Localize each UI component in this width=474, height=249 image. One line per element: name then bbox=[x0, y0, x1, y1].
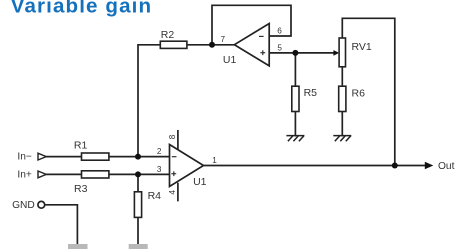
wire GND run bbox=[45, 205, 77, 247]
resistor R6 bbox=[339, 86, 346, 111]
wire feedback loop of U1a bbox=[212, 5, 291, 45]
svg-text:In+: In+ bbox=[17, 169, 31, 180]
pin 8 stub bbox=[177, 131, 179, 150]
wire RV1 to R6 bbox=[341, 67, 343, 86]
wire node C to R5 bbox=[294, 53, 296, 86]
resistor R5 bbox=[292, 86, 299, 111]
ground bar under R4 (cropped) bbox=[129, 244, 148, 249]
pin 4 stub bbox=[177, 184, 179, 201]
input terminal In+ bbox=[38, 171, 46, 178]
op-amp A minus sign bbox=[259, 35, 264, 37]
svg-text:2: 2 bbox=[157, 147, 162, 156]
wire R4 down bbox=[137, 217, 139, 246]
wire RV1 top loop to out node bbox=[342, 18, 395, 165]
svg-text:6: 6 bbox=[277, 26, 282, 35]
resistor R4 bbox=[134, 192, 141, 218]
svg-text:Variable gain: Variable gain bbox=[11, 0, 152, 17]
wire R6 to ground bbox=[341, 112, 343, 136]
wiper arrowhead bbox=[333, 50, 339, 56]
potentiometer RV1 body bbox=[339, 38, 345, 67]
op-amp U1 unit A (pointing left) bbox=[234, 24, 269, 66]
svg-text:Out: Out bbox=[438, 161, 455, 172]
svg-text:R4: R4 bbox=[148, 190, 162, 202]
wire In- to R1 bbox=[46, 156, 81, 158]
op-amp U1 unit B (pointing right) bbox=[170, 145, 204, 187]
junction node Out bbox=[392, 163, 398, 169]
junction node R3/pin3/R4 bbox=[135, 171, 141, 177]
svg-text:In−: In− bbox=[17, 152, 31, 163]
svg-text:3: 3 bbox=[157, 165, 162, 174]
svg-text:R6: R6 bbox=[352, 87, 366, 99]
svg-text:R5: R5 bbox=[304, 87, 318, 99]
resistor R1 bbox=[82, 153, 109, 160]
wire R2 to node B bbox=[187, 44, 235, 46]
wire R5 to ground bbox=[294, 112, 296, 136]
svg-text:7: 7 bbox=[221, 35, 226, 44]
junction node B (R2/pin7/feedback) bbox=[209, 42, 215, 48]
input terminal In- bbox=[38, 153, 46, 160]
svg-text:8: 8 bbox=[168, 134, 177, 139]
svg-text:R1: R1 bbox=[74, 140, 88, 152]
output arrow bbox=[425, 162, 434, 170]
wire node B stub to R4 bbox=[137, 174, 139, 191]
svg-text:5: 5 bbox=[277, 43, 282, 52]
wire R3 to U1 pin3 bbox=[109, 173, 170, 175]
op-amp A plus sign bbox=[260, 50, 265, 55]
ground symbol under R5 bbox=[286, 136, 304, 142]
terminal GND circle bbox=[38, 201, 45, 208]
wire In+ to R3 bbox=[46, 173, 81, 175]
svg-text:R2: R2 bbox=[161, 29, 175, 41]
svg-text:U1: U1 bbox=[193, 176, 207, 188]
svg-text:1: 1 bbox=[212, 156, 217, 165]
resistor R2 bbox=[160, 41, 187, 48]
ground bar under GND wire (cropped) bbox=[68, 244, 88, 249]
junction node A (R1/pin2/R2) bbox=[135, 154, 141, 160]
resistor R3 bbox=[82, 171, 109, 178]
junction node pin5/R5 bbox=[292, 50, 298, 56]
svg-text:R3: R3 bbox=[74, 183, 88, 195]
op-amp B minus sign bbox=[172, 156, 177, 158]
op-amp B plus sign bbox=[171, 171, 176, 176]
svg-text:RV1: RV1 bbox=[352, 41, 372, 53]
svg-text:U1: U1 bbox=[223, 54, 237, 66]
svg-text:GND: GND bbox=[12, 200, 35, 211]
wire R1 to U1 pin2 bbox=[109, 156, 170, 158]
ground symbol under R6 bbox=[333, 136, 351, 142]
wire pin5 to RV1 wiper bbox=[269, 52, 334, 54]
wire U1 output to Out bbox=[204, 165, 426, 167]
wire node A up to R2 bbox=[138, 45, 160, 157]
svg-text:4: 4 bbox=[168, 190, 177, 195]
